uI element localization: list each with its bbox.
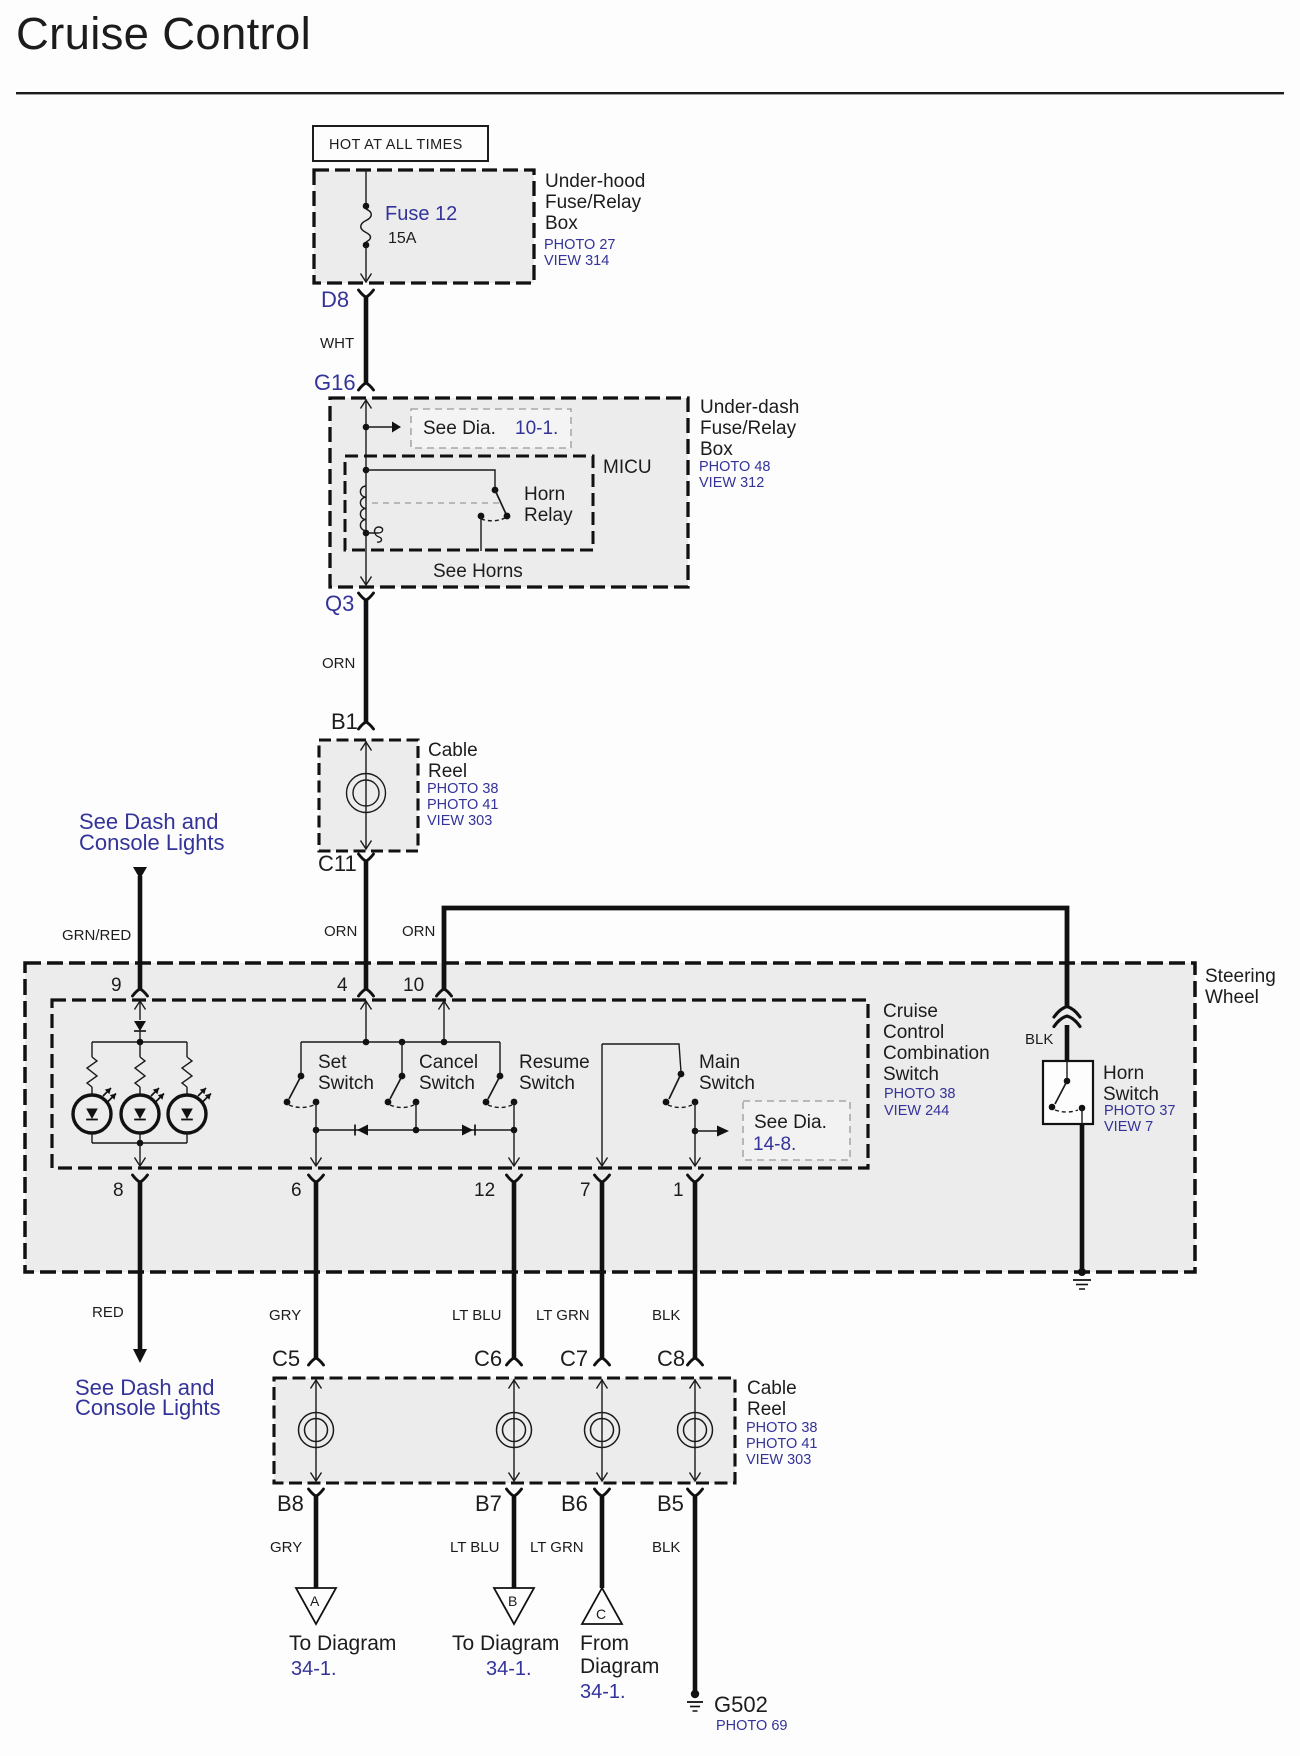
photo refs combination switch xyxy=(884,1086,955,1119)
wire C11 down to pin 4 xyxy=(364,860,369,990)
reel path C7-B6 xyxy=(585,1379,620,1481)
svg-text:Reel: Reel xyxy=(747,1399,786,1420)
svg-text:BLK: BLK xyxy=(1025,1031,1053,1048)
fuse F12 symbol xyxy=(361,203,372,249)
svg-text:C8: C8 xyxy=(657,1346,685,1371)
reel path C5-B8 xyxy=(299,1379,334,1481)
svg-text:Steering: Steering xyxy=(1205,966,1276,987)
svg-text:Q3: Q3 xyxy=(325,591,354,616)
svg-text:Fuse 12: Fuse 12 xyxy=(385,203,457,225)
cable reel lower labels xyxy=(747,1378,797,1420)
svg-text:C5: C5 xyxy=(272,1346,300,1371)
under-hood box labels xyxy=(545,171,645,234)
svg-text:ORN: ORN xyxy=(402,923,435,940)
relay mechanical dashed link xyxy=(372,502,500,504)
wire horn switch to ground xyxy=(1080,1124,1085,1272)
ground at steering wheel xyxy=(1073,1268,1091,1289)
reel path C8-B5 xyxy=(678,1379,713,1481)
under-hood fuse/relay box xyxy=(314,170,534,283)
wire pin 7 to C7 (LT GRN) xyxy=(600,1181,605,1359)
connector G16 xyxy=(359,383,374,390)
svg-text:14-8.: 14-8. xyxy=(753,1134,796,1155)
wire B6 down (LT GRN) xyxy=(600,1495,605,1588)
photo refs cable reel upper xyxy=(427,781,498,829)
svg-text:Horn: Horn xyxy=(524,484,565,505)
svg-text:Box: Box xyxy=(700,439,733,460)
svg-text:Set: Set xyxy=(318,1052,347,1073)
svg-text:Switch: Switch xyxy=(883,1064,939,1085)
horn relay contacts xyxy=(478,487,511,551)
svg-text:Cable: Cable xyxy=(747,1378,797,1399)
svg-text:LT GRN: LT GRN xyxy=(530,1539,584,1556)
resistor 2 xyxy=(139,1042,141,1057)
under-dash box labels xyxy=(700,397,799,460)
svg-text:GRN/RED: GRN/RED xyxy=(62,927,131,944)
inline connector on horn feed xyxy=(1054,1007,1080,1027)
wire LED bus to pin 8 xyxy=(139,1143,141,1165)
branch arrow to See Dia 14-8 xyxy=(695,1130,717,1132)
svg-text:HOT AT ALL TIMES: HOT AT ALL TIMES xyxy=(329,137,463,153)
See Dia. 14-8. box xyxy=(743,1101,850,1160)
svg-text:Main: Main xyxy=(699,1052,740,1073)
svg-text:1: 1 xyxy=(673,1180,684,1201)
svg-text:6: 6 xyxy=(291,1180,302,1201)
svg-text:34-1.: 34-1. xyxy=(486,1658,532,1680)
svg-text:LT BLU: LT BLU xyxy=(450,1539,499,1556)
svg-text:Relay: Relay xyxy=(524,505,573,526)
HOT AT ALL TIMES box xyxy=(313,126,488,161)
title rule xyxy=(16,92,1284,94)
wire D8 to G16 (WHT) xyxy=(364,296,369,384)
diode D in LED branch xyxy=(134,1021,146,1031)
relay wiring top xyxy=(366,470,495,490)
svg-text:ORN: ORN xyxy=(322,655,355,672)
wire B7 down (LT BLU) xyxy=(512,1495,517,1588)
cancel switch xyxy=(385,1042,420,1130)
svg-text:7: 7 xyxy=(580,1180,591,1201)
photo refs under-hood xyxy=(544,237,615,269)
wire pin 6 to C5 (GRY) xyxy=(314,1181,319,1359)
off-page connector C (from) xyxy=(582,1588,622,1624)
under-dash fuse/relay box xyxy=(330,398,688,587)
svg-text:Console Lights: Console Lights xyxy=(79,830,225,855)
See Dia. 10-1. box xyxy=(411,409,571,448)
svg-text:C: C xyxy=(596,1606,606,1622)
svg-text:PHOTO 41: PHOTO 41 xyxy=(427,797,498,813)
cable reel box (lower) xyxy=(274,1378,735,1483)
svg-text:Cruise: Cruise xyxy=(883,1001,938,1022)
horn feed wire from pin 10 up over to horn switch xyxy=(444,908,1067,1006)
svg-text:PHOTO 38: PHOTO 38 xyxy=(746,1420,817,1436)
See Dash and Console Lights (bottom) xyxy=(75,1375,221,1420)
svg-text:B6: B6 xyxy=(561,1491,588,1516)
resume switch xyxy=(483,1042,518,1130)
svg-text:BLK: BLK xyxy=(652,1539,680,1556)
cable reel spiral xyxy=(347,774,386,813)
wire B5 down (BLK) xyxy=(693,1495,698,1691)
svg-text:Fuse/Relay: Fuse/Relay xyxy=(700,418,797,439)
svg-text:Console Lights: Console Lights xyxy=(75,1395,221,1420)
svg-text:VIEW 303: VIEW 303 xyxy=(746,1452,811,1468)
combination switch labels xyxy=(883,1001,990,1085)
svg-text:ORN: ORN xyxy=(324,923,357,940)
cable reel box (upper) xyxy=(319,740,418,851)
svg-text:From: From xyxy=(580,1632,629,1655)
svg-text:15A: 15A xyxy=(388,230,417,247)
svg-text:Cable: Cable xyxy=(428,740,478,761)
svg-text:PHOTO 38: PHOTO 38 xyxy=(427,781,498,797)
cruise control combination switch box xyxy=(52,1000,868,1168)
svg-text:Combination: Combination xyxy=(883,1043,990,1064)
svg-text:Switch: Switch xyxy=(699,1073,755,1094)
svg-text:B8: B8 xyxy=(277,1491,304,1516)
svg-text:G16: G16 xyxy=(314,370,356,395)
svg-text:BLK: BLK xyxy=(652,1307,680,1324)
coil lower node with hook xyxy=(363,530,370,537)
reel path C6-B7 xyxy=(497,1379,532,1481)
svg-text:GRY: GRY xyxy=(270,1539,302,1556)
svg-text:LT GRN: LT GRN xyxy=(536,1307,590,1324)
svg-text:VIEW 312: VIEW 312 xyxy=(699,475,764,491)
svg-text:Under-dash: Under-dash xyxy=(700,397,799,418)
wire B8 down (GRY) xyxy=(314,1495,319,1588)
resistor 3 xyxy=(186,1042,188,1057)
diode bus between switches xyxy=(316,1129,514,1131)
svg-text:PHOTO 41: PHOTO 41 xyxy=(746,1436,817,1452)
svg-text:PHOTO 27: PHOTO 27 xyxy=(544,237,615,253)
wire pin 12 to C6 (LT BLU) xyxy=(512,1181,517,1359)
thin line through reel xyxy=(365,741,367,849)
svg-text:WHT: WHT xyxy=(320,335,354,352)
svg-text:VIEW 303: VIEW 303 xyxy=(427,813,492,829)
wire Q3 to B1 (ORN) xyxy=(364,599,369,723)
svg-text:VIEW 7: VIEW 7 xyxy=(1104,1119,1153,1135)
svg-text:12: 12 xyxy=(474,1180,495,1201)
wire through under-dash box xyxy=(365,399,367,585)
svg-text:Fuse/Relay: Fuse/Relay xyxy=(545,192,642,213)
svg-text:Reel: Reel xyxy=(428,761,467,782)
svg-text:C6: C6 xyxy=(474,1346,502,1371)
svg-text:C7: C7 xyxy=(560,1346,588,1371)
svg-text:Switch: Switch xyxy=(318,1073,374,1094)
svg-text:PHOTO 38: PHOTO 38 xyxy=(884,1086,955,1102)
ground G502 xyxy=(687,1690,703,1711)
connector Q3 xyxy=(359,593,374,600)
svg-text:To Diagram: To Diagram xyxy=(452,1632,559,1655)
svg-text:PHOTO 69: PHOTO 69 xyxy=(716,1718,787,1734)
svg-text:G502: G502 xyxy=(714,1692,768,1717)
LED branch: entry arrow pin 9 xyxy=(139,1001,141,1020)
wire pin 1 to C8 (BLK) xyxy=(693,1181,698,1359)
svg-text:C11: C11 xyxy=(318,851,357,876)
svg-text:34-1.: 34-1. xyxy=(291,1658,337,1680)
svg-text:Wheel: Wheel xyxy=(1205,987,1259,1008)
wire pin 8 down (RED) to dash lights xyxy=(138,1181,143,1352)
horn relay coil xyxy=(363,467,370,474)
MICU box xyxy=(345,456,593,550)
off-page connector A xyxy=(296,1588,336,1624)
svg-text:Cruise Control: Cruise Control xyxy=(16,8,311,59)
svg-text:See Horns: See Horns xyxy=(433,561,523,582)
wire fuse to box bottom with arrow xyxy=(365,245,367,282)
svg-text:Switch: Switch xyxy=(1103,1084,1159,1105)
cable reel labels xyxy=(428,740,478,782)
node and branch arrow to See Dia box xyxy=(363,424,370,431)
wire from box top to fuse xyxy=(365,170,367,206)
photo refs under-dash xyxy=(699,459,770,491)
svg-text:8: 8 xyxy=(113,1180,124,1201)
LED top bus xyxy=(92,1041,187,1043)
horn switch box xyxy=(1043,1061,1093,1124)
svg-text:A: A xyxy=(310,1593,320,1609)
diode toward set (apex left) xyxy=(355,1125,368,1136)
wire dash lights to pin 9 xyxy=(138,876,143,990)
LED bottom bus xyxy=(91,1132,93,1143)
svg-text:Cancel: Cancel xyxy=(419,1052,478,1073)
svg-text:D8: D8 xyxy=(321,287,349,312)
LED lamp 1 xyxy=(73,1088,116,1133)
svg-text:Resume: Resume xyxy=(519,1052,590,1073)
svg-text:34-1.: 34-1. xyxy=(580,1681,626,1703)
wire set branch to pin 6 xyxy=(315,1130,317,1165)
svg-text:MICU: MICU xyxy=(603,457,652,478)
See Dash and Console Lights (top) xyxy=(79,809,225,855)
svg-text:B: B xyxy=(508,1593,517,1609)
svg-text:B7: B7 xyxy=(475,1491,502,1516)
wire connector to horn switch xyxy=(1065,1025,1070,1061)
svg-text:Switch: Switch xyxy=(519,1073,575,1094)
resistor 1 xyxy=(91,1042,93,1057)
photo refs cable reel lower xyxy=(746,1420,817,1468)
off-page connector B xyxy=(494,1588,534,1624)
svg-text:9: 9 xyxy=(111,975,122,996)
svg-text:B1: B1 xyxy=(331,709,358,734)
svg-text:See Dia.: See Dia. xyxy=(423,418,496,439)
svg-text:LT BLU: LT BLU xyxy=(452,1307,501,1324)
svg-text:Horn: Horn xyxy=(1103,1063,1144,1084)
svg-text:VIEW 244: VIEW 244 xyxy=(884,1103,949,1119)
svg-text:PHOTO 48: PHOTO 48 xyxy=(699,459,770,475)
svg-text:PHOTO 37: PHOTO 37 xyxy=(1104,1103,1175,1119)
connector D8 xyxy=(359,290,374,297)
svg-text:10: 10 xyxy=(403,975,424,996)
main switch xyxy=(597,1044,701,1166)
svg-text:RED: RED xyxy=(92,1304,124,1321)
steering wheel box xyxy=(25,963,1195,1272)
diode toward resume (apex right) xyxy=(462,1125,475,1136)
connector B1 xyxy=(359,722,374,729)
wire resume branch to pin 12 xyxy=(513,1130,515,1165)
svg-text:Switch: Switch xyxy=(419,1073,475,1094)
svg-text:Box: Box xyxy=(545,213,578,234)
svg-text:4: 4 xyxy=(337,975,348,996)
wire diode to LED bus xyxy=(139,1031,141,1042)
connector C11 xyxy=(359,854,374,861)
svg-text:10-1.: 10-1. xyxy=(515,418,558,439)
LED lamp 2 xyxy=(121,1088,164,1133)
set switch xyxy=(284,1042,320,1130)
svg-text:Diagram: Diagram xyxy=(580,1655,659,1678)
svg-text:GRY: GRY xyxy=(269,1307,301,1324)
svg-text:B5: B5 xyxy=(657,1491,684,1516)
horn switch contacts xyxy=(1049,1061,1086,1124)
svg-text:See Dia.: See Dia. xyxy=(754,1112,827,1133)
svg-text:Under-hood: Under-hood xyxy=(545,171,645,192)
wire from dash lights into pin 9 (GRN/RED) xyxy=(133,867,147,879)
svg-text:VIEW 314: VIEW 314 xyxy=(544,253,609,269)
switch feed bus from pins 4/10 xyxy=(365,1001,367,1042)
svg-text:To Diagram: To Diagram xyxy=(289,1632,396,1655)
svg-text:Control: Control xyxy=(883,1022,944,1043)
LED lamp 3 xyxy=(168,1088,211,1133)
